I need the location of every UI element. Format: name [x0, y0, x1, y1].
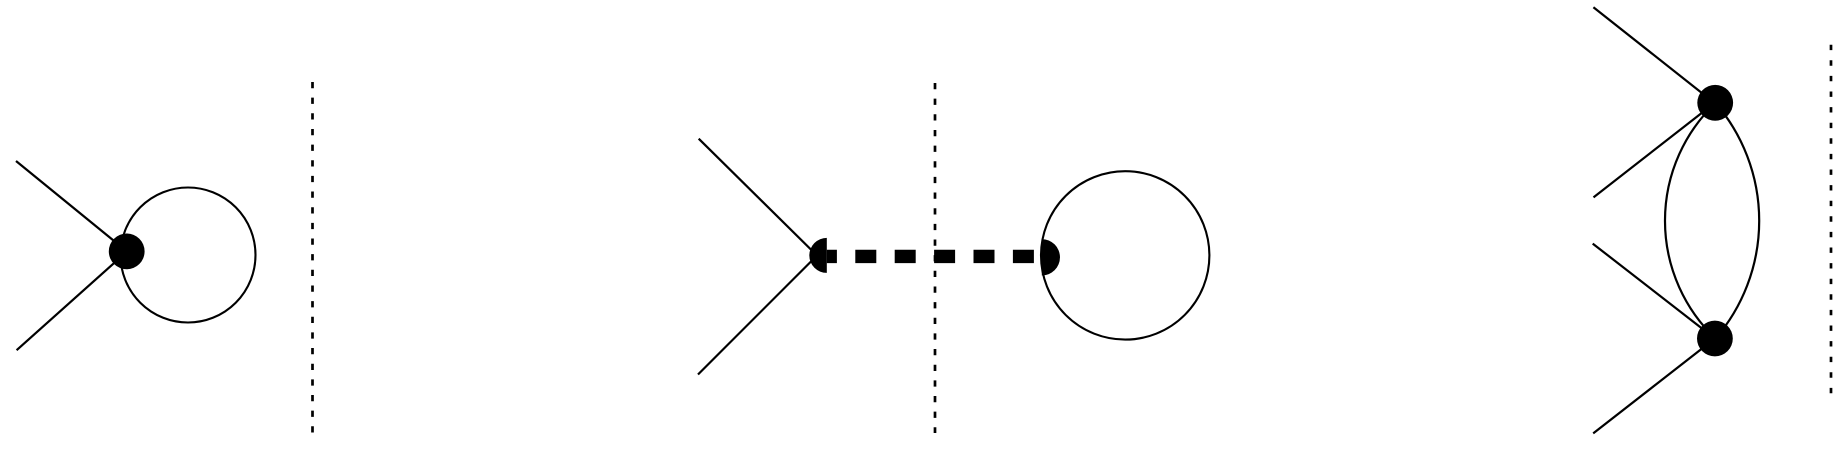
loop circle of diagram 1 — [121, 188, 256, 323]
wire: diagram 1 lower external leg — [17, 252, 127, 351]
cut line 1 (vertical dotted) — [311, 82, 314, 434]
vertex dot of diagram 1 — [109, 234, 145, 270]
thick dashed propagator line — [827, 250, 1042, 263]
half-disc vertex (left, flat side right) of diagram 2 — [809, 238, 827, 273]
wire: diagram 3 upper-left external leg (bottom vertex) — [1593, 244, 1715, 339]
wire: diagram 2 lower external leg — [698, 256, 817, 375]
cut line 2 (vertical dotted) — [934, 83, 937, 433]
wire: diagram 3 lower-left external leg (bottom vertex) — [1593, 339, 1715, 434]
wire: diagram 2 upper external leg — [699, 139, 817, 256]
loop circle of diagram 2 — [1041, 171, 1209, 339]
cut line 3 (vertical dotted) — [1830, 45, 1833, 394]
half-disc vertex (right, flat side left) of diagram 2 — [1042, 239, 1060, 275]
wire: diagram 1 upper external leg — [16, 161, 127, 252]
wire: diagram 3 upper-left external leg (top vertex) — [1593, 7, 1714, 103]
bubble left arc of diagram 3 — [1665, 103, 1716, 339]
bottom vertex dot of diagram 3 — [1697, 321, 1733, 357]
wire: diagram 3 lower-left external leg (top vertex) — [1594, 103, 1715, 197]
bubble right arc of diagram 3 — [1716, 103, 1760, 339]
top vertex dot of diagram 3 — [1697, 85, 1733, 121]
